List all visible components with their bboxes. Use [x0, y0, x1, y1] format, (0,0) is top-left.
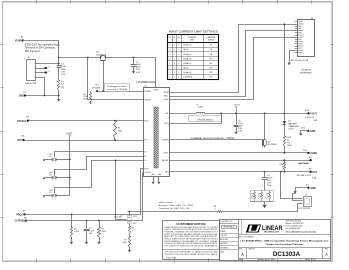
wire J3 to ground — [290, 51, 295, 63]
svg-text:VFLOAT = 4.2V: VFLOAT = 4.2V — [296, 174, 311, 177]
svg-text:1: 1 — [174, 77, 175, 79]
svg-text:36V Transient.: 36V Transient. — [25, 50, 41, 53]
svg-text:BAT/SENS: BAT/SENS — [298, 162, 309, 165]
svg-text:VOUT: VOUT — [234, 105, 241, 107]
wire E11 to ground — [301, 131, 309, 134]
wire CLPROG — [26, 173, 144, 221]
svg-text:INPUT CURRENT LIMIT SETTINGS: INPUT CURRENT LIMIT SETTINGS — [169, 32, 219, 34]
svg-text:0: 0 — [178, 45, 179, 47]
wire J2 thermistor — [223, 204, 303, 212]
svg-text:VOUT: VOUT — [164, 123, 168, 125]
wire logic rail — [69, 138, 71, 196]
op-amp U1 LTC4066EUF box — [144, 88, 170, 177]
wire J1 pin1 VBUS — [39, 63, 59, 65]
terminal E8 BAT — [309, 171, 311, 173]
svg-text:Leakage current: Leakage current — [107, 85, 127, 88]
wire NTC3AA — [29, 120, 144, 122]
wire ACPR to J3 — [170, 25, 296, 93]
terminal E3 NTC3AA — [27, 119, 29, 121]
svg-text:OFF: OFF — [209, 77, 212, 79]
svg-text:1: 1 — [178, 49, 179, 51]
svg-text:0: 0 — [52, 180, 53, 182]
ground C1 R1 — [57, 99, 60, 102]
svg-text:CHRG: CHRG — [310, 153, 317, 155]
resistor R12 — [284, 161, 286, 163]
svg-text:0: 0 — [178, 72, 179, 74]
svg-text:L2: L2 — [48, 67, 50, 69]
svg-text:Charger with Overvoltage Prote: Charger with Overvoltage Protection — [266, 243, 304, 246]
title block — [163, 221, 220, 260]
svg-text:OVSENS: OVSENS — [144, 99, 151, 101]
wire thermistor ext — [128, 211, 217, 213]
wire Q1 to VBUS pin — [109, 58, 156, 88]
wire VOUT pin join — [170, 114, 222, 124]
svg-text:DPC/JST-S2B: DPC/JST-S2B — [299, 208, 311, 210]
resistor R7 — [129, 234, 131, 237]
svg-text:NTCB: NTCB — [144, 120, 148, 122]
frame zone ticks — [36, 1, 38, 4]
svg-text:2.49k: 2.49k — [74, 231, 79, 233]
test point TP4 OVGATE — [96, 90, 98, 92]
svg-text:CHARGING: CHARGING — [288, 125, 299, 128]
capacitor C4 — [264, 172, 266, 178]
wire JP2 to D1 pin — [55, 157, 144, 177]
resistor R4 — [71, 215, 73, 228]
terminal E11 GND — [307, 130, 309, 132]
wire OVSENS tap — [88, 58, 144, 100]
ground R5 — [97, 242, 100, 245]
wire NTC to JP4 — [116, 161, 127, 220]
svg-text:OFF: OFF — [209, 58, 212, 60]
wire CHGATE to Q2 — [170, 139, 261, 141]
svg-text:0: 0 — [169, 45, 170, 47]
connector J3 — [298, 20, 315, 57]
transistor Q1 — [99, 57, 101, 59]
ground U1 pin2 — [157, 182, 160, 184]
svg-text:1206: 1206 — [267, 185, 271, 187]
svg-text:Si2333DS: Si2333DS — [267, 144, 277, 146]
svg-text:VOUT: VOUT — [310, 114, 317, 116]
wire WALL to J3 — [170, 31, 296, 97]
svg-text:VUSB: VUSB — [15, 41, 22, 43]
resistor R6 — [129, 224, 131, 226]
svg-text:LTC4066EUF/DC: USB Compatible: LTC4066EUF/DC: USB Compatible Switching … — [241, 240, 330, 243]
svg-text:GND: GND — [19, 96, 24, 98]
svg-text:1: 1 — [178, 67, 179, 69]
jumper JP3 D2 — [46, 195, 52, 197]
svg-text:R11: R11 — [266, 193, 269, 195]
svg-text:CLPROG: CLPROG — [144, 172, 151, 174]
svg-text:HV/BUCK: HV/BUCK — [302, 69, 312, 71]
terminal E7 GND — [307, 187, 309, 189]
wire Q1 gate to OVGATE — [103, 62, 105, 92]
capacitor C1 — [57, 65, 62, 67]
jumper JP4 NTC select — [128, 216, 132, 224]
capacitor C2 — [133, 58, 135, 65]
svg-text:0: 0 — [169, 49, 170, 51]
svg-text:GND: GND — [310, 131, 315, 133]
svg-text:NTC SEL: NTC SEL — [114, 217, 122, 219]
svg-text:3.6V-4.2V: 3.6V-4.2V — [305, 117, 315, 119]
svg-text:OFF: OFF — [209, 63, 212, 65]
led D1 — [284, 114, 286, 121]
svg-text:1: 1 — [178, 77, 179, 79]
svg-text:0: 0 — [132, 230, 133, 232]
wire VBUS to Q1 — [59, 57, 99, 59]
svg-text:BATTERY: BATTERY — [288, 122, 298, 125]
svg-text:NTC: NTC — [17, 140, 22, 142]
svg-text:0.1uF: 0.1uF — [89, 230, 95, 232]
terminal E4 NTC — [22, 139, 24, 141]
wire BAT to J2 — [281, 172, 303, 199]
svg-text:100k: 100k — [122, 242, 126, 244]
svg-text:0: 0 — [169, 58, 170, 60]
svg-text:1: 1 — [55, 162, 56, 164]
capacitor C3 — [86, 221, 88, 229]
U1 ground pins — [153, 177, 155, 182]
note leakage 400nA — [105, 84, 130, 92]
ferrite bead L2 — [44, 67, 47, 69]
svg-text:D2: D2 — [49, 192, 51, 194]
node VBUS junction — [58, 57, 60, 59]
svg-text:Fax: (408)434-0507: Fax: (408)434-0507 — [286, 228, 301, 230]
svg-text:1: 1 — [174, 58, 175, 60]
resistor R5 — [99, 221, 101, 228]
svg-text:0603: 0603 — [83, 99, 87, 101]
svg-text:1: 1 — [174, 54, 175, 56]
ferrite bead L3 — [44, 72, 47, 74]
svg-text:R7: R7 — [124, 239, 126, 241]
svg-text:100k: 100k — [118, 130, 122, 132]
svg-text:D2: D2 — [144, 160, 146, 162]
svg-text:LPS4018-332MLC: LPS4018-332MLC — [197, 119, 214, 121]
terminal E9 BATSENS — [309, 159, 311, 161]
svg-text:APPROVALS: APPROVALS — [224, 226, 235, 229]
U1 exposed pad hatch — [154, 107, 158, 168]
ground E7 — [293, 191, 296, 194]
svg-text:D0: D0 — [144, 152, 146, 154]
resistors R9 R10 R11 — [251, 191, 274, 202]
wire R1 to ground — [58, 91, 60, 100]
ground battery sim — [262, 205, 267, 208]
svg-text:TITLE: SCHEMATIC: TITLE: SCHEMATIC — [239, 236, 255, 239]
svg-text:PROG: PROG — [144, 169, 149, 171]
svg-text:GND: GND — [311, 188, 316, 190]
terminal E16 CHRG — [307, 152, 309, 154]
resistor R1 — [58, 80, 60, 91]
svg-text:3.3µH: 3.3µH — [198, 107, 204, 109]
svg-text:D0: D0 — [49, 156, 51, 158]
wire to big ground — [264, 202, 266, 205]
svg-text:LTC4066EUF/DC: LTC4066EUF/DC — [136, 81, 156, 84]
svg-text:5%: 5% — [61, 87, 64, 89]
svg-text:INTERFACE: INTERFACE — [300, 72, 313, 75]
wire J1 gnd pin — [39, 78, 45, 96]
svg-text:D1: D1 — [144, 156, 146, 158]
wire SW node — [170, 113, 197, 115]
svg-text:OVGATE: OVGATE — [92, 87, 101, 90]
svg-text:Monday, July 07, 2008: Monday, July 07, 2008 — [258, 259, 275, 261]
svg-text:0: 0 — [178, 63, 179, 65]
wire VOUT main — [205, 113, 309, 115]
svg-text:STATUS: STATUS — [208, 38, 215, 41]
svg-text:1: 1 — [174, 72, 175, 74]
svg-text:0: 0 — [178, 54, 179, 56]
svg-text:1.2: 1.2 — [266, 195, 268, 197]
svg-text:CHECKED: CHECKED — [220, 235, 227, 237]
svg-text:Resistors: Ohms, 0402, 1%, 1/1: Resistors: Ohms, 0402, 1%, 1/16W — [159, 204, 194, 207]
resistor R3 — [114, 121, 117, 141]
svg-text:CLPROG: CLPROG — [15, 221, 25, 223]
svg-text:PROG: PROG — [16, 215, 23, 217]
wire JP1 to D0 pin — [55, 152, 144, 158]
svg-text:Capacitors: uF, 0402, 10%, 16: Capacitors: uF, 0402, 10%, 16V — [159, 207, 190, 210]
transistor Q2 — [264, 114, 266, 139]
terminal E2 GND — [24, 94, 26, 96]
svg-text:0: 0 — [174, 63, 175, 65]
svg-text:3.01k: 3.01k — [101, 231, 106, 233]
svg-text:DC1303A: DC1303A — [273, 251, 301, 258]
svg-text:0: 0 — [52, 198, 53, 200]
wire BAT — [170, 171, 311, 173]
svg-text:D1: D1 — [49, 174, 51, 176]
wire PROG — [25, 169, 144, 215]
ground R4 — [70, 242, 73, 245]
svg-text:VOUT: VOUT — [66, 134, 73, 136]
resistor R2 — [90, 93, 92, 102]
svg-text:1: 1 — [55, 180, 56, 182]
terminal E5 PROG — [23, 213, 25, 215]
terminal E6 CLPROG — [25, 219, 27, 221]
svg-text:LIMIT: LIMIT — [190, 39, 194, 41]
wire OVGATE to U1 — [98, 91, 144, 93]
svg-text:ENGINEER: ENGINEER — [220, 243, 228, 245]
wire E7 to ground — [296, 188, 309, 192]
svg-text:OFF: OFF — [209, 67, 212, 69]
jumper JP2 D1 — [46, 177, 52, 179]
svg-text:0.5A: 0.5A — [312, 177, 317, 180]
svg-text:1: 1 — [55, 198, 56, 200]
svg-text:BZT-100-01-F-D-RA: BZT-100-01-F-D-RA — [291, 59, 309, 62]
svg-text:D1: D1 — [173, 37, 175, 39]
svg-text:6.3V: 6.3V — [136, 72, 141, 74]
svg-text:OFF: OFF — [209, 72, 212, 74]
wire FLAG to J3 — [170, 38, 296, 100]
svg-text:R9: R9 — [251, 193, 253, 195]
ground C3 — [85, 242, 88, 245]
capacitor C5 — [236, 114, 238, 125]
svg-text:0: 0 — [52, 162, 53, 164]
jumper JP1 D0 — [46, 159, 52, 161]
wire NTC — [24, 140, 144, 142]
ground C2 — [132, 71, 135, 74]
svg-text:TECHNOLOGY: TECHNOLOGY — [264, 231, 280, 233]
svg-text:1.2A: 1.2A — [313, 119, 318, 122]
svg-text:0: 0 — [169, 54, 170, 56]
svg-text:Si2333DS: Si2333DS — [96, 54, 106, 56]
terminal E1 VUSB — [21, 39, 23, 41]
svg-text:NTC3AA: NTC3AA — [17, 120, 27, 123]
inductor L1 — [196, 112, 198, 113]
svg-text:1: 1 — [169, 63, 170, 65]
ground C5 — [234, 132, 237, 135]
svg-text:MINI-B USB: MINI-B USB — [25, 83, 37, 85]
svg-text:BAT: BAT — [312, 171, 317, 174]
svg-text:0: 0 — [174, 45, 175, 47]
svg-text:SHEET 1 OF 1: SHEET 1 OF 1 — [305, 259, 316, 261]
svg-text:Green: Green — [288, 129, 294, 131]
svg-text:must be < 400nA: must be < 400nA — [107, 88, 127, 91]
svg-text:1: 1 — [169, 72, 170, 74]
svg-text:DWG NO: DWG NO — [248, 249, 255, 251]
wire JP4 ext — [129, 212, 131, 216]
terminal E10 VOUT — [307, 112, 309, 114]
svg-text:1: 1 — [169, 67, 170, 69]
svg-text:6.3V: 6.3V — [61, 74, 66, 76]
ground U1 pin1 — [152, 182, 155, 184]
ground J3 — [287, 63, 290, 66]
svg-text:CHRG: CHRG — [163, 153, 168, 155]
wire J3 tap down — [284, 25, 286, 114]
svg-text:L3: L3 — [48, 71, 50, 73]
resistor R8 — [217, 211, 223, 213]
pin stubs J1 — [36, 63, 39, 65]
svg-text:CUSTOMER NOTICE: CUSTOMER NOTICE — [176, 222, 205, 226]
svg-text:R6: R6 — [132, 227, 134, 229]
svg-text:1.2: 1.2 — [251, 195, 253, 197]
connector J1 MINI-B USB — [27, 60, 36, 81]
connector J2 — [304, 197, 312, 207]
svg-text:1: 1 — [169, 77, 170, 79]
svg-text:1: 1 — [178, 58, 179, 60]
wire J2 gnd — [293, 194, 303, 201]
svg-text:R10: R10 — [258, 193, 261, 195]
resistor R13 — [284, 136, 286, 147]
ground E11 — [299, 133, 302, 136]
ground R2 — [90, 102, 92, 103]
wire E2 gnd rail — [26, 95, 59, 97]
svg-text:D2: D2 — [169, 37, 171, 39]
wire VUSB to VBUS node — [23, 41, 59, 66]
svg-text:0: 0 — [174, 67, 175, 69]
svg-text:SIZE: SIZE — [239, 249, 243, 251]
svg-text:0: 0 — [174, 49, 175, 51]
wire BATSNS — [170, 160, 311, 162]
svg-text:1.2: 1.2 — [258, 195, 260, 197]
svg-text:D0: D0 — [178, 37, 180, 39]
svg-text:Unless noted:: Unless noted: — [159, 201, 173, 204]
wire JP3 to D2 pin — [55, 161, 144, 194]
wire CHRG — [170, 152, 309, 154]
ground R7 — [128, 250, 131, 253]
